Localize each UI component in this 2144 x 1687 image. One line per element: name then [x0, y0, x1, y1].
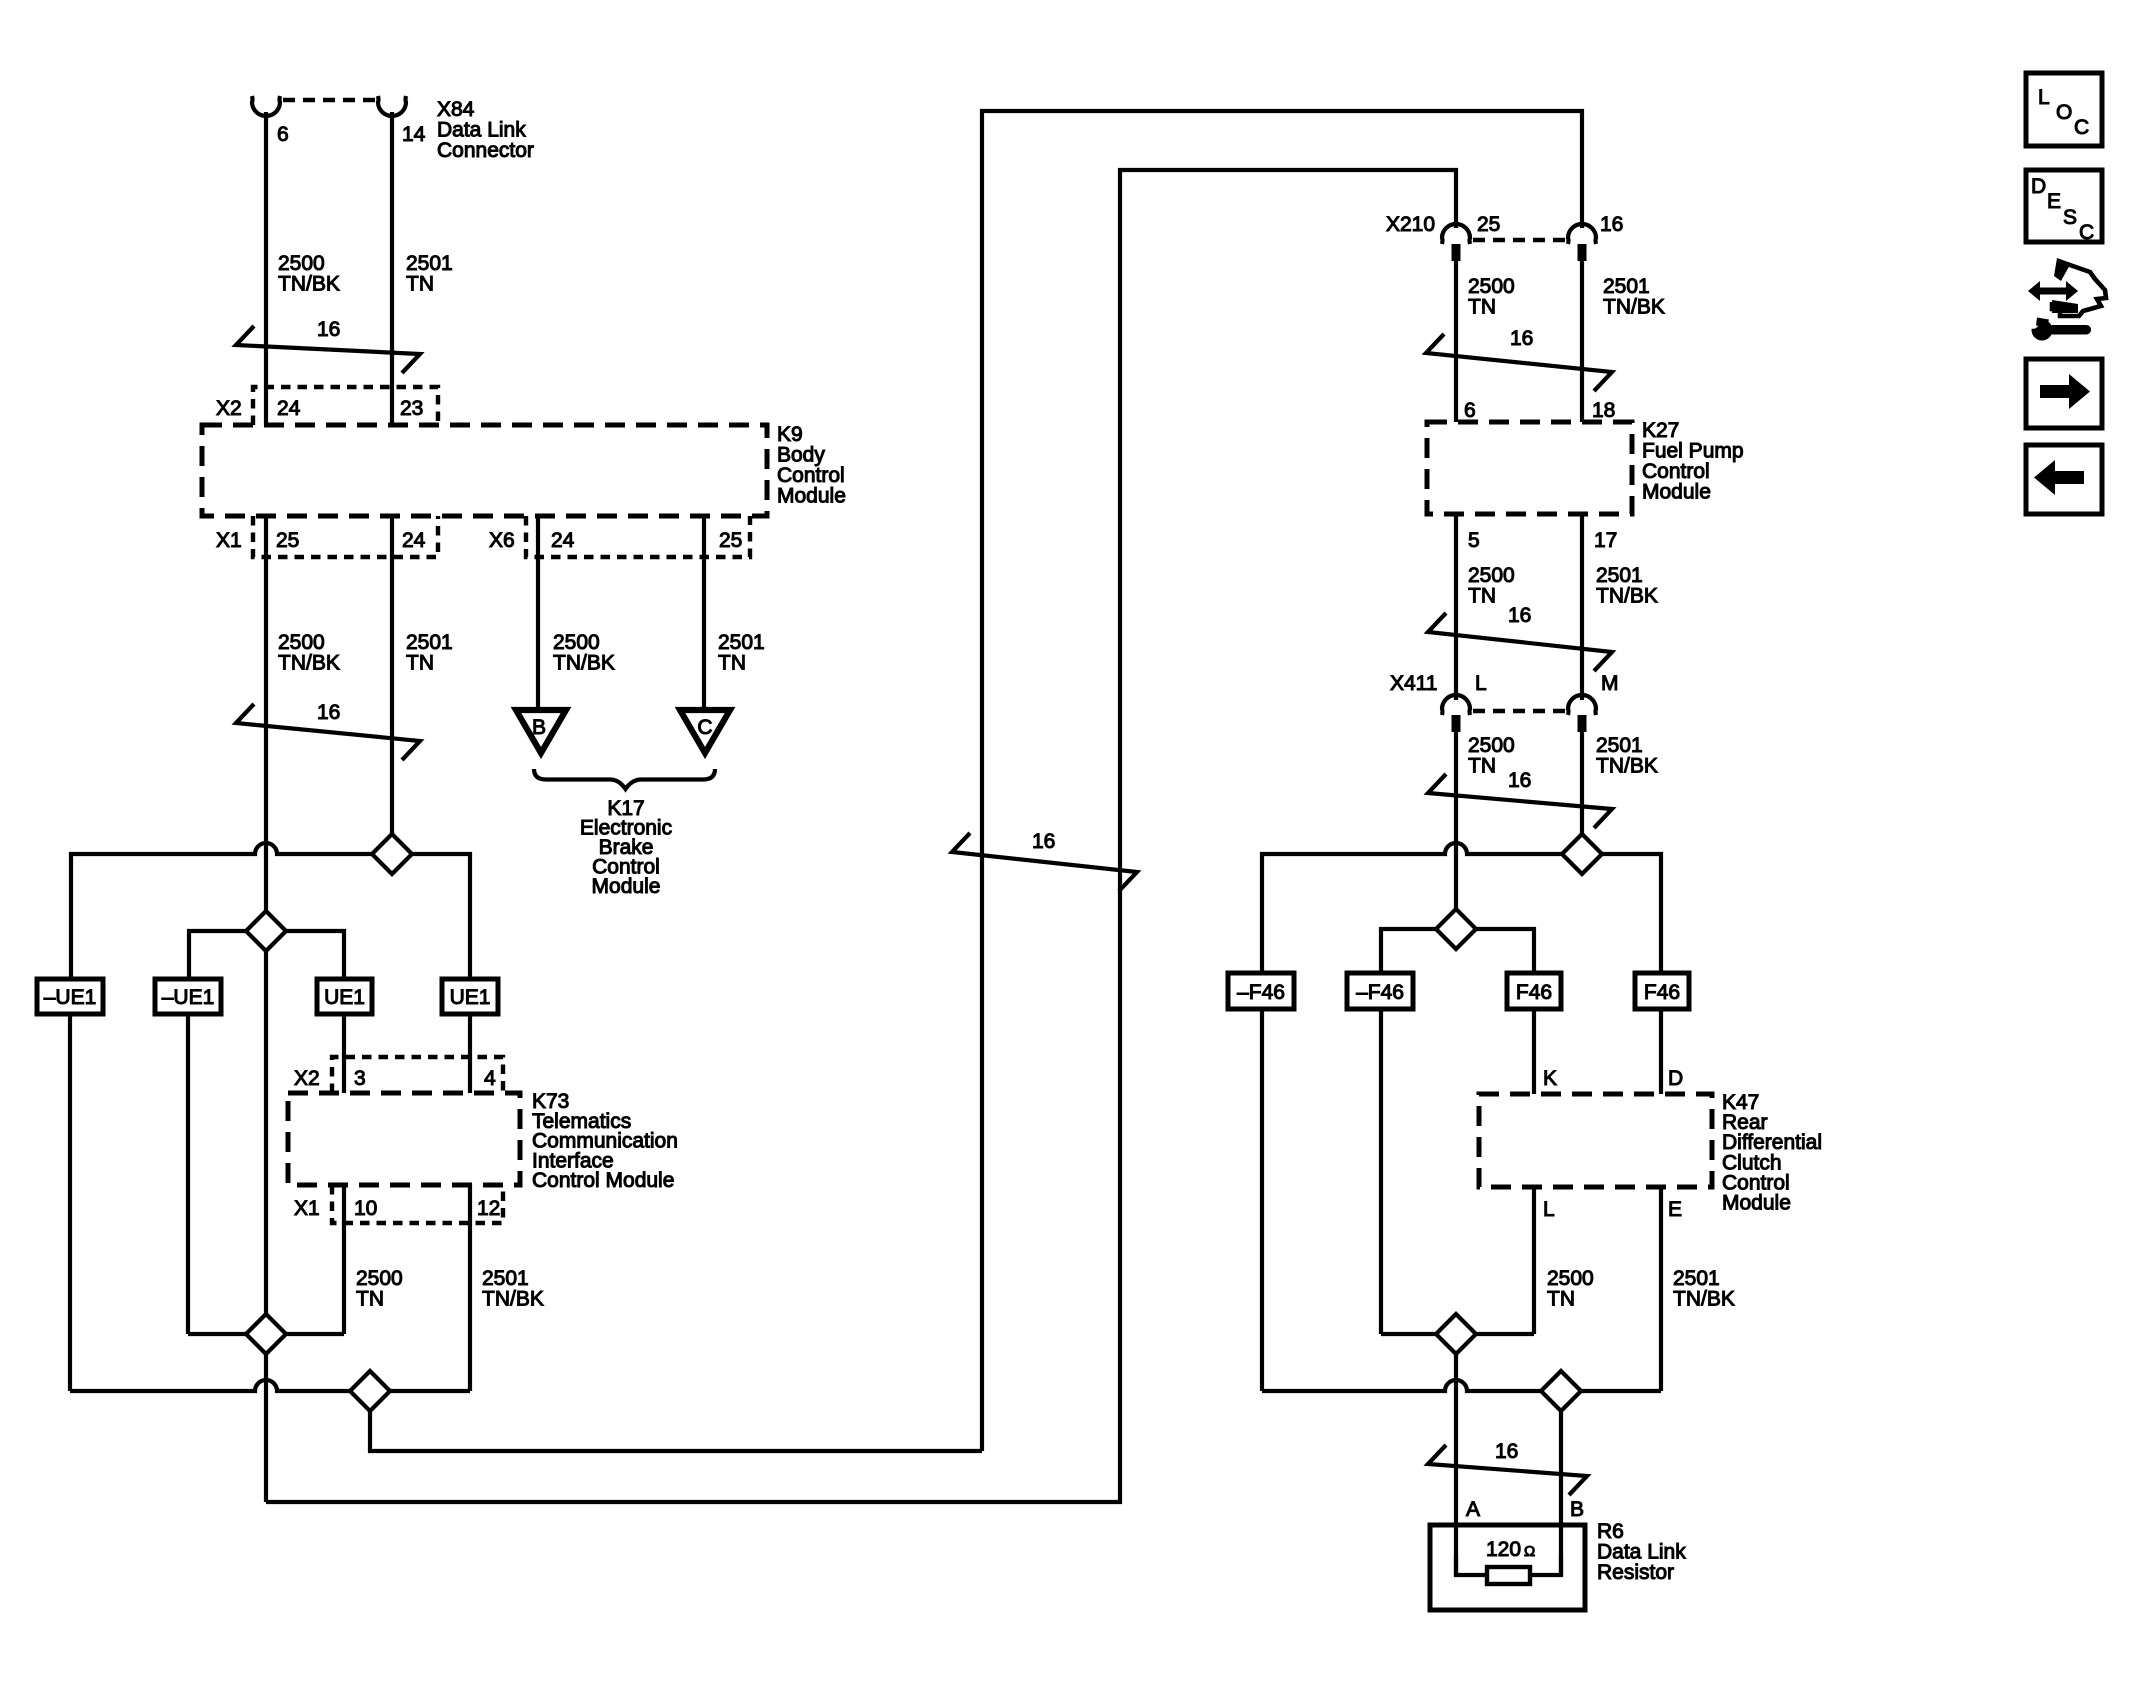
wire 2501 TN from X84 pin 14 to K9 X2 pin 23 [390, 112, 394, 425]
wire 2500 TN from X411 pin L down to splice S6 [1454, 729, 1458, 929]
splice S3 diamond [246, 1314, 286, 1354]
connector row X6 of K9 (pins 24, 25) [526, 516, 750, 557]
svg-text:24: 24 [551, 529, 575, 552]
long riser wire 2501 up to top horizontal run [982, 111, 1582, 1451]
net box UE1 (third) [317, 979, 372, 1014]
connector X411 pin L terminal [1442, 695, 1470, 715]
R6 internal lead pin B [1530, 1555, 1561, 1575]
terminal B triangle of K17 [516, 710, 566, 753]
connector row X1 of K73 (pins 10, 12) [332, 1185, 503, 1223]
wire from splice S4 down and right to long vertical riser [370, 1411, 982, 1451]
svg-text:X2: X2 [294, 1067, 320, 1090]
svg-text:16: 16 [1508, 769, 1531, 792]
icon DESC box [2026, 170, 2102, 242]
net box -UE1 (first) [37, 979, 103, 1014]
X411 male terminal tick pin M [1578, 715, 1587, 732]
wire 2500 TN from K27 pin 5 to X411 pin L [1454, 514, 1458, 700]
resistor R6 Data Link Resistor housing box [1430, 1525, 1585, 1610]
icon service tools: arrow head fill [2054, 258, 2071, 281]
splice S8 diamond [1541, 1371, 1581, 1411]
svg-text:4: 4 [484, 1067, 496, 1090]
R6 internal lead pin A [1456, 1555, 1487, 1575]
wire 2500 TN from X210 pin 25 to K27 pin 6 [1454, 258, 1458, 422]
module K27 Fuel Pump Control Module [1427, 422, 1632, 514]
svg-text:16: 16 [317, 318, 340, 341]
svg-text:B: B [1570, 1498, 1584, 1521]
connector X84 cavity 14 terminal [378, 96, 406, 116]
svg-text:25: 25 [276, 529, 299, 552]
net bus F46 lower: from -F46 box to F46 box [1381, 929, 1534, 973]
icon LOC box [2026, 73, 2102, 146]
back arrow [2034, 460, 2084, 495]
bus with hop over 2500 wire, from -F46 wire to K47 pin E wire [1262, 1380, 1661, 1391]
svg-text:–F46: –F46 [1237, 981, 1285, 1004]
svg-text:6: 6 [1464, 399, 1476, 422]
svg-text:16: 16 [317, 701, 340, 724]
svg-text:23: 23 [400, 397, 423, 420]
wire 2500 from splice S2 down to splice S3 [264, 951, 268, 1334]
wire 2500 TN from K73 X1 pin 10 to splice S3 bus [342, 1185, 346, 1334]
svg-text:L: L [1475, 672, 1487, 695]
wire 2501 TN/BK from K73 X1 pin 12 to splice S4 bus [468, 1185, 472, 1391]
svg-text:16: 16 [1032, 830, 1055, 853]
wire from -F46 second box down to bus at S7 [1379, 1009, 1383, 1334]
connector X210 cavity 16 terminal [1568, 224, 1596, 244]
module K47 Rear Differential Clutch Control Module [1479, 1094, 1712, 1187]
twisted pair symbol, 16 gauge [236, 704, 420, 760]
wire from -UE1 second box down to bus at S3 [186, 1014, 190, 1334]
svg-text:16: 16 [1510, 327, 1533, 350]
svg-text:–UE1: –UE1 [162, 986, 215, 1009]
svg-text:–UE1: –UE1 [44, 986, 97, 1009]
svg-text:24: 24 [402, 529, 426, 552]
svg-text:25: 25 [1477, 213, 1500, 236]
wire 2501 from splice S8 down to R6 pin B [1559, 1411, 1563, 1575]
net box F46 (fourth) [1635, 973, 1689, 1009]
wire 2501 TN/BK from K27 pin 17 to X411 pin M [1580, 514, 1584, 700]
net bus F46 upper: from -F46 box to F46 box with hop over 2500 wire [1262, 843, 1661, 973]
splice S4 diamond [350, 1371, 390, 1411]
svg-text:14: 14 [402, 123, 426, 146]
svg-text:X1: X1 [294, 1197, 320, 1220]
terminal C triangle of K17 [680, 710, 730, 753]
wire 2500 TN/BK from K9 X1 pin 25 down to splice S2 [264, 516, 268, 931]
svg-text:16: 16 [1495, 1440, 1518, 1463]
svg-text:A: A [1466, 1498, 1480, 1521]
wire 2501 TN/BK from X210 pin 16 to K27 pin 18 [1580, 258, 1584, 422]
twisted pair symbol, 16 gauge [1428, 613, 1612, 671]
svg-text:L: L [1543, 1198, 1555, 1221]
svg-text:O: O [2056, 101, 2072, 124]
connector X84 dashed body line [283, 98, 375, 103]
svg-text:D: D [1668, 1067, 1683, 1090]
twisted pair symbol, 16 gauge [1428, 774, 1612, 828]
icon service tools: outlined arrow [2052, 264, 2106, 316]
icon forward arrow box [2026, 359, 2102, 428]
svg-text:X2: X2 [216, 397, 242, 420]
connector row X1 of K9 (pins 25, 24) [253, 516, 438, 557]
svg-text:F46: F46 [1644, 981, 1680, 1004]
wire 2500 from splice S3 down to long bus [264, 1354, 268, 1502]
icon service tools: arrow tail bar [2052, 300, 2078, 313]
connector row X2 of K9 (pins 24, 23) [253, 387, 438, 425]
svg-text:B: B [532, 716, 546, 739]
twisted pair symbol, 16 gauge [236, 326, 420, 373]
wire from F46 fourth box to K47 pin D [1659, 1009, 1663, 1094]
wire 2501 TN/BK from K47 pin E to splice S8 bus [1659, 1187, 1663, 1391]
svg-text:25: 25 [719, 529, 742, 552]
wire from F46 third box to K47 pin K [1532, 1009, 1536, 1094]
wire from UE1 fourth box to K73 X2 pin 4 [468, 1014, 472, 1093]
bus from -UE1 wire to K73 pin10 wire [188, 1332, 344, 1336]
bus from -F46 wire to K47 pin L wire [1381, 1332, 1534, 1336]
net box -F46 (first) [1228, 973, 1294, 1009]
wire 2500 TN/BK from X84 pin 6 to K9 X2 pin 24 [264, 112, 268, 425]
wire 2500 TN/BK from K9 X6 pin 24 to K17 terminal B [536, 516, 540, 708]
splice S6 diamond on 2500 TN [1436, 909, 1476, 949]
svg-text:16: 16 [1600, 213, 1623, 236]
splice S5 diamond on 2501 TN/BK [1562, 834, 1602, 874]
X411 male terminal tick pin L [1452, 715, 1461, 732]
connector row X2 of K73 (pins 3, 4) [332, 1057, 503, 1093]
svg-text:L: L [2038, 86, 2050, 109]
splice S1 diamond on 2501 TN [372, 834, 412, 874]
long run wire 2500 from splice S3 bus to X210 pin 25 [266, 170, 1456, 1502]
svg-text:–F46: –F46 [1356, 981, 1404, 1004]
wire from -UE1 first box down to lower bus [68, 1014, 72, 1391]
icon back arrow box [2026, 445, 2102, 514]
net bus UE1 upper: from -UE1 box to UE1 box with hop over 2500 wire [71, 843, 470, 979]
svg-text:S: S [2063, 206, 2077, 229]
svg-text:X1: X1 [216, 529, 242, 552]
svg-text:10: 10 [354, 1197, 377, 1220]
svg-text:E: E [2047, 190, 2061, 213]
wire 2500 from splice S7 down to R6 pin A [1454, 1354, 1458, 1575]
net box UE1 (fourth) [442, 979, 498, 1014]
svg-text:3: 3 [354, 1067, 366, 1090]
svg-text:K: K [1543, 1067, 1557, 1090]
resistor element 120 ohm [1487, 1567, 1530, 1584]
wire from -F46 first box down to lower bus [1260, 1009, 1264, 1391]
svg-text:16: 16 [1508, 604, 1531, 627]
connector X411 pin M terminal [1568, 695, 1596, 715]
wire 2501 TN from K9 X6 pin 25 to K17 terminal C [702, 516, 706, 708]
X210 male terminal tick pin 25 [1452, 244, 1461, 261]
connector X210 dashed body line [1473, 238, 1565, 243]
splice S7 diamond [1436, 1314, 1476, 1354]
module K73 Telematics Communication Interface Control Module [288, 1093, 520, 1185]
icon service tools: wrench [2032, 320, 2053, 341]
svg-text:E: E [1668, 1198, 1682, 1221]
connector X84 Data Link Connector, cavity 6 terminal [252, 96, 280, 116]
wire from UE1 third box to K73 X2 pin 3 [342, 1014, 346, 1093]
svg-text:X210: X210 [1386, 213, 1435, 236]
net bus UE1 lower: from -UE1 box to UE1 box [189, 931, 344, 979]
connector X210 cavity 25 terminal [1442, 224, 1470, 244]
X210 male terminal tick pin 16 [1578, 244, 1587, 261]
splice S2 diamond on 2500 TN/BK [246, 911, 286, 951]
net box F46 (third) [1507, 973, 1561, 1009]
icon service tools: double-headed arrow [2028, 281, 2078, 301]
wire 2501 TN/BK from X411 pin M down to splice S5 [1580, 729, 1584, 854]
svg-text:D: D [2031, 175, 2046, 198]
twisted pair symbol on long runs, 16 gauge [952, 833, 1137, 891]
net box -UE1 (second) [155, 979, 221, 1014]
svg-text:C: C [2079, 221, 2094, 244]
svg-text:X411: X411 [1390, 672, 1438, 695]
bus with hop over 2500 wire, to K73 pin12 wire [70, 1380, 470, 1391]
connector X411 dashed body line [1473, 709, 1565, 714]
svg-text:24: 24 [277, 397, 301, 420]
twisted pair symbol, 16 gauge [1428, 1445, 1587, 1495]
wire 2501 TN from K9 X1 pin 24 down to splice S1 [390, 516, 394, 854]
svg-text:C: C [697, 716, 712, 739]
svg-text:F46: F46 [1516, 981, 1552, 1004]
module K9 Body Control Module [202, 425, 767, 516]
brace grouping K17 terminals [534, 769, 715, 789]
net box -F46 (second) [1347, 973, 1413, 1009]
twisted pair symbol, 16 gauge [1426, 334, 1612, 391]
svg-text:6: 6 [277, 123, 289, 146]
svg-text:12: 12 [477, 1197, 500, 1220]
forward arrow [2040, 374, 2090, 409]
svg-text:C: C [2074, 116, 2089, 139]
svg-text:M: M [1601, 672, 1619, 695]
svg-text:17: 17 [1594, 529, 1617, 552]
svg-text:UE1: UE1 [324, 986, 365, 1009]
svg-text:X6: X6 [489, 529, 515, 552]
svg-text:18: 18 [1592, 399, 1615, 422]
wire 2500 TN from K47 pin L to splice S7 bus [1532, 1187, 1536, 1334]
svg-text:UE1: UE1 [450, 986, 491, 1009]
svg-text:5: 5 [1468, 529, 1480, 552]
